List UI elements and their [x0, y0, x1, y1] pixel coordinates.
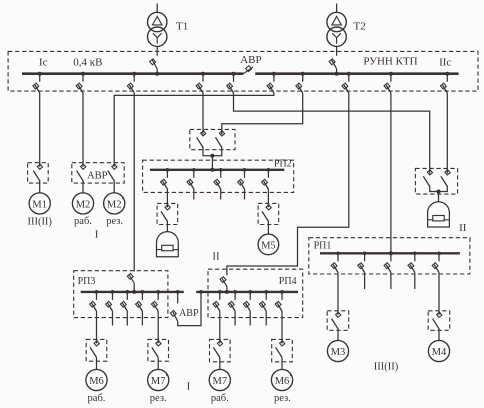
svg-text:М5: М5 — [261, 240, 276, 251]
wire РП2 reserve to join — [212, 147, 221, 156]
busbar РП4 — [196, 291, 298, 293]
breaker feeder РП4 — [348, 74, 350, 82]
node РП1 tap 3 — [413, 251, 417, 255]
wire M5 drop — [267, 189, 269, 207]
svg-text:I: I — [187, 380, 191, 392]
node РП3 tie — [176, 290, 180, 294]
node tap right-heater reserve — [445, 72, 449, 76]
motor M2 — [72, 193, 93, 214]
tie breaker АВР РП3-РП4 — [177, 292, 179, 304]
node РП1 tap M4 — [437, 251, 441, 255]
breaker РП2 M5 — [267, 170, 269, 178]
bus tie breaker АВР — [243, 67, 253, 74]
breaker feeder РП2 reserve — [302, 74, 304, 82]
svg-text:М7: М7 — [151, 376, 166, 387]
wire join to РП2 bus — [211, 156, 213, 170]
breaker РП3 stub3 — [126, 292, 128, 300]
switch box M3 — [327, 311, 349, 331]
node РП4 tap 2 — [233, 290, 237, 294]
wire M7 раб drop — [219, 311, 221, 343]
motor M5 — [258, 234, 279, 255]
node РП2 incoming — [210, 168, 214, 172]
left electric heater — [157, 232, 179, 257]
svg-text:рез.: рез. — [106, 216, 123, 227]
wire M6' drop — [281, 311, 283, 343]
wire M7 drop — [157, 311, 159, 343]
circuit breaker T2 incoming — [336, 46, 338, 56]
node T1 connection — [155, 72, 159, 76]
switch box M7 рез — [148, 339, 169, 361]
wire to M5 — [267, 221, 269, 234]
svg-text:М3: М3 — [331, 347, 346, 358]
wire РП2 stub4 — [244, 189, 246, 200]
contactor M6 — [94, 341, 99, 346]
breaker РП2 stub3 — [220, 170, 222, 178]
wire РП1 stub centre — [390, 273, 392, 290]
wire to M6 — [96, 357, 98, 369]
svg-text:М1: М1 — [32, 199, 47, 210]
breaker РП3 stub4 — [141, 292, 143, 300]
node tap РП2 reserve — [301, 72, 305, 76]
node РП3 tap 4 — [141, 290, 145, 294]
breaker РП2 heater — [166, 170, 168, 178]
breaker РП3 M7 — [157, 292, 159, 300]
switch box M5 — [258, 203, 279, 224]
node tap РП2 main — [201, 72, 205, 76]
busbar РП3 — [81, 291, 184, 293]
breaker РП1 stub3 — [414, 253, 416, 261]
node tap РП3 feed — [132, 72, 136, 76]
svg-text:': ' — [165, 370, 167, 384]
svg-text:Iс: Iс — [39, 56, 48, 68]
contactor M4 — [437, 312, 442, 317]
svg-text:': ' — [121, 193, 123, 207]
svg-text:РП2: РП2 — [274, 158, 292, 169]
wire РП3 stub2 — [112, 311, 114, 325]
node tap M2 — [81, 72, 85, 76]
breaker feeder РП2 main — [202, 74, 204, 82]
contactor M3 — [336, 312, 341, 317]
node РП2 tap 4 — [243, 168, 247, 172]
breaker feeder РП1 — [390, 74, 392, 82]
svg-text:II: II — [459, 222, 467, 234]
node РП1 tap 2 — [363, 251, 367, 255]
motor M7 раб — [209, 369, 230, 390]
РП2 dashed enclosure — [143, 160, 294, 192]
node РП3 tap M6 — [95, 290, 99, 294]
wire to M3 — [337, 328, 339, 340]
svg-text:М2: М2 — [76, 199, 91, 210]
svg-text:': ' — [289, 370, 291, 384]
wire M2 to motor — [82, 180, 84, 193]
wire join to right heater — [438, 192, 440, 202]
breaker РП1 stub centre — [390, 253, 392, 261]
breaker РП4 M7 раб — [219, 292, 221, 300]
circuit breaker T1 incoming — [156, 46, 158, 56]
svg-text:рез.: рез. — [150, 393, 167, 404]
node tap right-heater main — [232, 72, 236, 76]
АВР box M2/M2' — [72, 163, 124, 183]
breaker РП4 stub4 — [265, 292, 267, 300]
svg-text:М6: М6 — [89, 376, 104, 387]
switch box M6' — [272, 339, 293, 361]
РП4 dashed enclosure — [208, 269, 303, 317]
busbar РП1 — [320, 252, 460, 254]
transformer T1 — [156, 4, 158, 13]
wire РП2 stub2 — [193, 189, 195, 200]
АВР pair box РП2 — [190, 129, 235, 149]
contactor M6' — [280, 341, 285, 346]
node РП3 tap 3 — [125, 290, 129, 294]
node РП3 tap 2 — [111, 290, 115, 294]
wire РП4 stub4 — [265, 311, 267, 325]
breaker feeder right-heater main — [233, 74, 235, 82]
wire РП1 stub3 — [414, 273, 416, 290]
breaker РП3 M6 — [96, 292, 98, 300]
transformer T2 — [336, 4, 338, 13]
contactor M1 — [37, 164, 42, 169]
node РП4 tie — [199, 290, 203, 294]
svg-text:рез.: рез. — [274, 393, 291, 404]
node T2 connection — [335, 72, 339, 76]
node right-heater join — [437, 190, 441, 194]
breaker РП1 M3 — [337, 253, 339, 261]
node tap РП4 feed — [347, 72, 351, 76]
breaker РП1 M4 — [438, 253, 440, 261]
breaker РП1 stub2 — [364, 253, 366, 261]
svg-text:АВР: АВР — [240, 54, 261, 66]
node РП3 incoming — [132, 290, 136, 294]
svg-text:III(II): III(II) — [374, 361, 399, 372]
wire right-heater reserve drop — [446, 93, 448, 174]
wire РП2 reserve route — [222, 93, 303, 135]
motor M3 — [327, 340, 348, 361]
node РП2 tap M5 — [267, 168, 271, 172]
wire РП3 stub3 — [126, 311, 128, 325]
motor M1 — [29, 193, 50, 214]
node РП4 incoming — [225, 290, 229, 294]
wire M6 drop — [96, 311, 98, 343]
node РП4 tap 3 — [248, 290, 252, 294]
node tap M1 — [38, 72, 42, 76]
breaker feeder РП3 — [133, 74, 135, 82]
node РП2 tap 2 — [192, 168, 196, 172]
node РП1 tap M3 — [336, 251, 340, 255]
node РП2 tap 3 — [219, 168, 223, 172]
wire M2' reserve route — [114, 93, 274, 167]
wire РП2 main to join — [203, 147, 212, 156]
wire to M6' — [281, 357, 283, 369]
svg-text:М4: М4 — [432, 347, 447, 358]
svg-text:раб.: раб. — [74, 216, 92, 227]
АВР pair box right — [415, 168, 457, 194]
wire РП4 stub3 — [249, 311, 251, 325]
busbar section II — [255, 72, 458, 75]
breaker feeder right-heater reserve — [446, 74, 448, 82]
svg-text:РП1: РП1 — [314, 241, 332, 252]
switch box M4 — [428, 311, 450, 331]
wire РП3 stub4 — [141, 311, 143, 325]
svg-text:I: I — [95, 228, 99, 240]
wire РП2 main drop — [202, 93, 204, 135]
node РП1 incoming — [389, 251, 393, 255]
wire РП1 feeder drop — [390, 93, 392, 253]
node tap РП1 feed — [389, 72, 393, 76]
wire РП4 feeder route — [227, 93, 349, 275]
breaker РП4 stub3 — [249, 292, 251, 300]
wire to left heater — [166, 221, 168, 232]
РП1 dashed enclosure — [309, 238, 470, 274]
motor M6 — [86, 369, 107, 390]
breaker РП3 stub2 — [112, 292, 114, 300]
wire M1 drop — [39, 93, 41, 167]
switch box M6 — [86, 339, 107, 361]
node tap M2' reserve — [272, 72, 276, 76]
svg-text:раб.: раб. — [211, 393, 229, 404]
wire РП4 stub2 — [234, 311, 236, 325]
wire M3 drop — [337, 273, 339, 315]
node РП2 tap heater — [166, 168, 170, 172]
node РП4 tap M6' — [280, 290, 284, 294]
svg-text:РП3: РП3 — [78, 276, 96, 287]
wire M4 drop — [438, 273, 440, 315]
breaker РП2 stub2 — [193, 170, 195, 178]
contactor M5 — [266, 205, 271, 210]
wire to M4 — [438, 328, 440, 340]
motor M4 — [428, 340, 449, 361]
contactor РП2 main — [201, 131, 206, 136]
breaker РП3 incoming — [129, 275, 134, 283]
svg-text:АВР: АВР — [179, 308, 199, 319]
breaker РП4 incoming — [222, 279, 227, 287]
svg-text:РП4: РП4 — [279, 276, 297, 287]
busbar РП2 — [150, 169, 284, 171]
switch box M7 раб — [210, 339, 231, 361]
contactor M2' — [112, 164, 117, 169]
wire right reserve to join — [439, 186, 448, 192]
motor M7 рез — [148, 369, 169, 390]
wire M2 drop — [82, 93, 84, 167]
wire to M7 раб — [219, 357, 221, 369]
switch box left heater — [157, 203, 178, 224]
svg-text:III(II): III(II) — [27, 217, 52, 228]
switchgear dashed enclosure РУНН КТП — [8, 51, 478, 91]
wire to M7 рез — [157, 357, 159, 369]
wire M1 to motor — [39, 180, 41, 193]
svg-text:РУНН КТП: РУНН КТП — [363, 56, 417, 68]
svg-text:раб.: раб. — [88, 393, 106, 404]
svg-text:0,4 кВ: 0,4 кВ — [73, 57, 102, 69]
right electric heater — [428, 202, 450, 227]
РП3 dashed enclosure — [74, 271, 168, 318]
wire M2' to motor — [113, 180, 115, 193]
wire right-heater main route — [234, 93, 430, 174]
switch box M1 — [28, 163, 49, 183]
node РП4 tap 4 — [264, 290, 268, 294]
breaker РП4 M6' — [281, 292, 283, 300]
wire right main to join — [430, 186, 439, 192]
svg-text:II: II — [212, 250, 220, 262]
motor M6' — [271, 369, 292, 390]
breaker feeder M1 — [39, 74, 41, 82]
svg-text:Т2: Т2 — [354, 21, 366, 33]
node РП2 feed join — [210, 154, 214, 158]
breaker feeder M2 — [82, 74, 84, 82]
contactor right-heater reserve — [445, 170, 450, 175]
wire heater drop — [166, 189, 168, 207]
svg-text:Т1: Т1 — [176, 21, 188, 33]
contactor right-heater main — [427, 170, 432, 175]
wire РП2 stub3 — [220, 189, 222, 200]
svg-text:М7: М7 — [213, 376, 228, 387]
contactor M2 — [81, 164, 86, 169]
busbar section I — [22, 72, 243, 75]
wire РП1 stub2 — [364, 273, 366, 290]
contactor left heater — [165, 205, 170, 210]
node РП3 tap M7 — [156, 290, 160, 294]
breaker РП2 stub4 — [244, 170, 246, 178]
breaker feeder M2' reserve — [273, 74, 275, 82]
node РП4 tap M7 раб — [218, 290, 222, 294]
svg-text:М6: М6 — [275, 376, 290, 387]
contactor M7 рез — [156, 341, 161, 346]
contactor РП2 reserve — [219, 131, 224, 136]
motor M2' — [104, 193, 125, 214]
svg-text:IIс: IIс — [439, 57, 451, 69]
contactor M7 раб — [217, 341, 222, 346]
svg-text:АВР: АВР — [87, 170, 108, 181]
svg-text:М2: М2 — [107, 199, 122, 210]
wire РП3 feeder drop — [133, 93, 135, 272]
breaker РП4 stub2 — [234, 292, 236, 300]
